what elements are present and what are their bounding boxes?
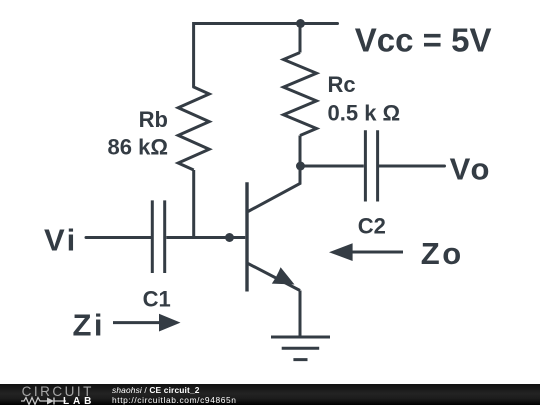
wire C2 to Vo [379, 165, 444, 168]
capacitor C2 plates [365, 130, 377, 201]
footer title text [112, 386, 237, 405]
CircuitLab logo LAB [63, 396, 95, 405]
svg-text:0.5 k Ω: 0.5 k Ω [328, 100, 401, 125]
svg-text:Zo: Zo [421, 236, 464, 271]
node junction dot Vcc [296, 19, 305, 28]
wire C1 to base node [166, 236, 229, 239]
transistor Q1 emitter diagonal [248, 264, 300, 291]
resistor Rb zigzag [178, 87, 209, 170]
svg-text:Vi: Vi [44, 222, 78, 257]
wire Vcc top rail [194, 24, 338, 88]
svg-text:Rb: Rb [139, 107, 168, 132]
svg-text:Vo: Vo [450, 152, 492, 187]
arrow Zi [113, 314, 181, 332]
arrow Zo [329, 243, 403, 261]
svg-text:86 kΩ: 86 kΩ [108, 135, 168, 160]
svg-text:Vcc = 5V: Vcc = 5V [355, 21, 492, 58]
node junction dot base [225, 233, 234, 242]
wire Vi input [86, 236, 151, 239]
footer bar [0, 384, 540, 405]
wire emitter to ground [299, 291, 302, 338]
transistor Q1 base bar [245, 182, 248, 291]
transistor Q1 emitter arrow [272, 267, 295, 284]
CircuitLab logo resistor-diode line [21, 396, 95, 405]
svg-text:Rc: Rc [328, 72, 356, 97]
wire collector node to C2 [300, 165, 364, 168]
capacitor C1 plates [152, 200, 164, 273]
resistor Rc zigzag [284, 53, 317, 136]
svg-text:C2: C2 [358, 213, 386, 238]
CircuitLab logo wordmark [22, 384, 94, 400]
wire base node to transistor [230, 236, 246, 239]
wire Rb bottom lead [192, 170, 195, 238]
svg-text:C1: C1 [143, 287, 171, 312]
wire Rc top lead [299, 24, 302, 53]
svg-text:Zi: Zi [73, 308, 106, 343]
node junction dot collector [296, 162, 305, 171]
wire Rc bottom lead [299, 136, 302, 167]
transistor Q1 collector diagonal [248, 166, 300, 212]
ground symbol [271, 337, 330, 360]
